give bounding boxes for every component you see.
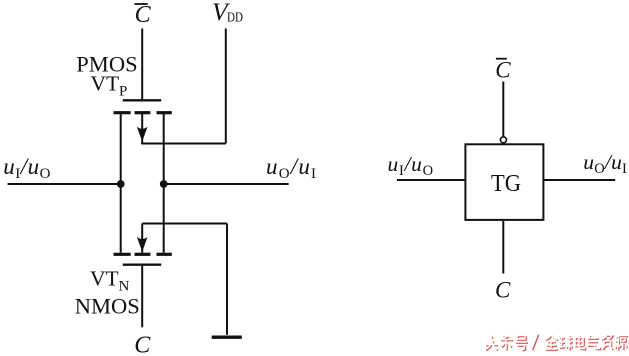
svg-text:C: C <box>495 57 511 82</box>
svg-text:NMOS: NMOS <box>75 294 140 319</box>
svg-text:C: C <box>134 333 151 356</box>
svg-text:TG: TG <box>491 170 521 197</box>
svg-text:uO/uI: uO/uI <box>266 154 317 182</box>
svg-text:uO/uI: uO/uI <box>583 150 627 177</box>
svg-text:N: N <box>119 279 130 295</box>
svg-text:uI/uO: uI/uO <box>3 154 51 182</box>
svg-text:C: C <box>135 2 152 28</box>
svg-text:C: C <box>495 278 511 303</box>
svg-text:P: P <box>119 84 127 100</box>
svg-text:uI/uO: uI/uO <box>388 152 434 179</box>
svg-text:VT: VT <box>90 267 119 291</box>
svg-text:DD: DD <box>227 10 243 25</box>
svg-text:VT: VT <box>91 72 120 96</box>
